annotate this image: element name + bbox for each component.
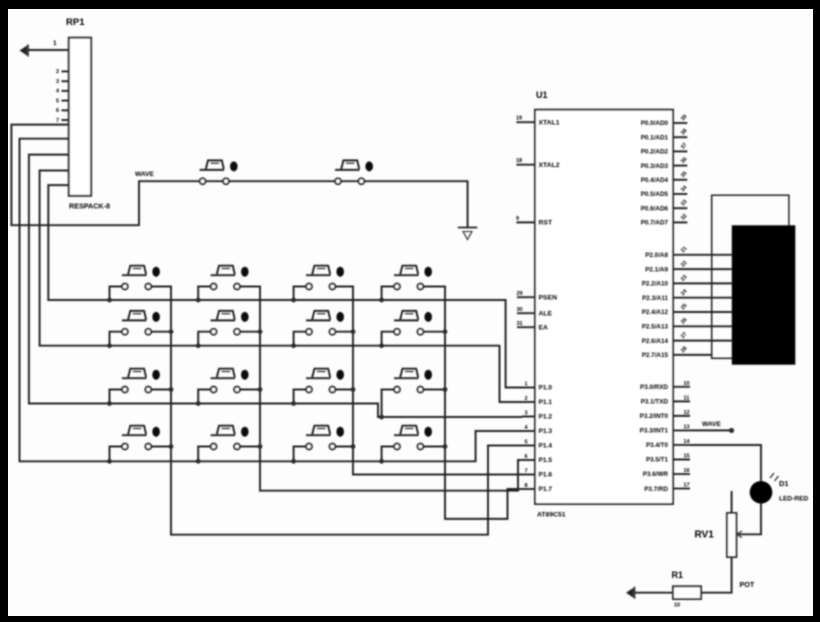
svg-text:33: 33 [680, 199, 689, 208]
pin P0.4 stub [673, 179, 687, 181]
pin XTAL1 stub [516, 121, 535, 123]
wire keypad r3c2 left leg [198, 390, 213, 404]
push button WAVE-2 [335, 160, 373, 184]
junction r3c1 on column [169, 387, 174, 392]
push button keypad r4c3 [306, 426, 344, 450]
svg-text:15: 15 [684, 454, 690, 460]
svg-text:AT89C51: AT89C51 [537, 512, 566, 519]
wire keypad r1c3 right leg [332, 286, 353, 288]
svg-text:5: 5 [525, 440, 528, 446]
wire keypad r4c4 left leg [382, 447, 397, 462]
svg-text:P1.4: P1.4 [539, 443, 553, 450]
svg-text:P3.1/TXD: P3.1/TXD [641, 399, 669, 406]
svg-text:P2.6/A14: P2.6/A14 [642, 338, 669, 345]
wire keypad r1c4 right leg [420, 286, 445, 288]
svg-text:10: 10 [674, 603, 680, 609]
wire keypad r1c1 right leg [148, 286, 171, 288]
push button keypad r2c4 [394, 311, 432, 335]
junction r1c2 on row bus [196, 298, 201, 303]
wire keypad r2c4 left leg [382, 332, 397, 346]
push button keypad r4c2 [211, 426, 249, 450]
wire keypad r3c4 right leg [420, 389, 445, 391]
push button keypad r1c3 [306, 266, 344, 290]
pin P3.1/TXD stub [673, 400, 690, 402]
svg-text:29: 29 [517, 291, 523, 297]
svg-text:P3.3/INT1: P3.3/INT1 [640, 428, 669, 435]
pin XTAL2 stub [516, 164, 535, 166]
wire RP1 pin 1 [28, 49, 69, 51]
wire keypad r2c1 right leg [148, 331, 171, 333]
junction r2c3 on row bus [291, 343, 296, 348]
pin P1.3 stub [522, 430, 535, 432]
junction r3c4 on row bus [379, 415, 384, 420]
wire D1 cathode to RV1 wiper [739, 503, 762, 534]
junction r1c1 on row bus [107, 298, 112, 303]
wire keypad r3c1 left leg [110, 390, 125, 404]
svg-text:P2.2/A10: P2.2/A10 [642, 281, 669, 288]
svg-text:13: 13 [684, 424, 690, 430]
svg-text:LED-RED: LED-RED [779, 496, 809, 503]
pin RST stub [516, 221, 535, 223]
junction r4c1 on column [169, 444, 174, 449]
push button keypad r1c1 [122, 266, 160, 290]
wire keypad r2c2 right leg [237, 331, 260, 333]
junction r3c3 on row bus [291, 401, 296, 406]
svg-text:3: 3 [525, 411, 528, 417]
svg-text:U1: U1 [536, 90, 548, 100]
wire RV1 bottom to R1 [701, 557, 732, 593]
push button keypad r3c3 [306, 369, 344, 393]
svg-text:2: 2 [525, 396, 528, 402]
wire pin P2.5 to display [673, 325, 732, 327]
svg-text:6: 6 [56, 108, 59, 114]
svg-text:P0.2/AD2: P0.2/AD2 [641, 149, 669, 156]
svg-text:5: 5 [56, 98, 59, 104]
push button keypad r2c1 [122, 311, 160, 335]
pin P3.7/RD stub [673, 488, 690, 490]
junction r2c1 on row bus [107, 343, 112, 348]
pin P1.1 stub [522, 401, 535, 403]
wire keypad r4c4 right leg [420, 446, 445, 448]
RP1 stub pin 6 [62, 109, 69, 111]
svg-text:P2.1/A9: P2.1/A9 [645, 266, 668, 273]
svg-text:26: 26 [680, 317, 689, 326]
wire R1 to terminal [635, 592, 674, 594]
svg-text:P1.0: P1.0 [539, 385, 553, 392]
svg-text:P2.3/A11: P2.3/A11 [642, 295, 668, 302]
resistor R1 body [673, 586, 701, 599]
RP1 stub pin 4 [62, 90, 69, 92]
pin P0.7 stub [673, 221, 687, 223]
svg-text:P0.4/AD4: P0.4/AD4 [641, 177, 669, 184]
svg-text:XTAL1: XTAL1 [539, 119, 560, 126]
svg-text:18: 18 [516, 158, 522, 164]
wire row 3 bus (RP1 to P1.2) [29, 155, 522, 417]
svg-text:36: 36 [680, 156, 689, 165]
svg-text:WAVE: WAVE [702, 421, 722, 428]
svg-text:23: 23 [680, 274, 689, 283]
junction r2c2 on row bus [196, 343, 201, 348]
input terminal (pin 1) [20, 45, 29, 57]
wire pin P2.2 to display [673, 282, 732, 284]
svg-text:P2.0/A8: P2.0/A8 [645, 252, 668, 259]
wire keypad r2c4 right leg [420, 331, 445, 333]
junction r2c1 on column [169, 329, 174, 334]
svg-text:22: 22 [680, 260, 689, 269]
wire RV1 top terminal [731, 491, 733, 513]
svg-text:12: 12 [684, 410, 690, 416]
wire WAVE from P3.3 [690, 429, 732, 431]
svg-text:8: 8 [525, 483, 528, 489]
push button keypad r2c2 [211, 311, 249, 335]
RP1 stub pin 2 [62, 70, 69, 72]
display dark screen [732, 225, 796, 364]
svg-text:14: 14 [684, 439, 691, 445]
wire keypad column 2 (to P1.5) [237, 287, 522, 491]
wire WAVE net (RP1 pull-up to button row and ground) [11, 125, 467, 228]
wire keypad r3c3 right leg [332, 389, 353, 391]
RV1 wiper arrow [737, 531, 742, 538]
svg-text:30: 30 [517, 307, 523, 313]
ground [458, 228, 478, 240]
junction r2c4 on row bus [379, 343, 384, 348]
pin P0.5 stub [673, 193, 687, 195]
svg-text:P1.2: P1.2 [539, 414, 553, 421]
wire keypad r4c1 left leg [110, 447, 125, 462]
wire keypad r4c3 right leg [332, 446, 353, 448]
svg-text:POT: POT [740, 580, 755, 589]
RP1 stub pin 3 [62, 80, 69, 82]
svg-text:RST: RST [539, 220, 553, 227]
junction r3c3 on column [351, 387, 356, 392]
push button keypad r3c1 [122, 369, 160, 393]
wire keypad r3c3 left leg [294, 390, 309, 404]
pin P3.4/T0 stub [673, 444, 690, 446]
svg-text:24: 24 [680, 288, 689, 297]
push button WAVE-1 [200, 160, 238, 184]
push button keypad r2c3 [306, 311, 344, 335]
pin PSEN stub [517, 296, 535, 298]
pin P1.6 stub [522, 474, 535, 476]
svg-text:P3.0/RXD: P3.0/RXD [640, 384, 668, 391]
svg-text:P1.6: P1.6 [539, 472, 553, 479]
pin P1.7 stub [522, 488, 535, 490]
svg-text:7: 7 [525, 469, 528, 475]
svg-text:19: 19 [516, 116, 522, 122]
svg-text:P1.5: P1.5 [539, 457, 553, 464]
pin P0.1 stub [673, 136, 687, 138]
push button keypad r4c1 [122, 426, 160, 450]
svg-text:25: 25 [680, 303, 689, 312]
junction r4c3 on column [351, 444, 356, 449]
svg-text:P2.7/A15: P2.7/A15 [642, 352, 669, 359]
svg-text:P3.4/T0: P3.4/T0 [646, 442, 669, 449]
svg-text:R1: R1 [672, 570, 684, 580]
svg-text:P0.3/AD3: P0.3/AD3 [641, 163, 669, 170]
svg-text:34: 34 [680, 184, 689, 193]
svg-text:EA: EA [539, 324, 549, 331]
wire pin P2.6 to display [673, 340, 732, 342]
pin P1.5 stub [522, 459, 535, 461]
pin P3.5/T1 stub [673, 459, 690, 461]
pin P0.6 stub [673, 207, 687, 209]
wire keypad r4c1 right leg [148, 446, 171, 448]
svg-text:32: 32 [680, 213, 689, 222]
svg-text:38: 38 [680, 128, 689, 137]
pin P1.4 stub [522, 445, 535, 447]
svg-text:P0.5/AD5: P0.5/AD5 [641, 191, 669, 198]
junction r2c3 on column [351, 329, 356, 334]
RP1 stub pin 7 [62, 119, 69, 121]
wire keypad r1c2 right leg [237, 286, 260, 288]
svg-text:9: 9 [516, 216, 519, 222]
wire keypad r1c1 left leg [110, 287, 125, 301]
junction r4c2 on column [258, 444, 263, 449]
svg-text:P0.0/AD0: P0.0/AD0 [641, 120, 669, 127]
junction r4c2 on row bus [196, 459, 201, 464]
pin ALE stub [517, 312, 535, 314]
svg-text:1: 1 [53, 40, 57, 47]
svg-text:P2.4/A12: P2.4/A12 [642, 309, 669, 316]
junction r3c1 on row bus [107, 401, 112, 406]
junction r3c2 on row bus [196, 401, 201, 406]
wire keypad r3c1 right leg [148, 389, 171, 391]
svg-text:27: 27 [680, 331, 689, 340]
pin EA stub [517, 326, 535, 328]
junction r3c2 on column [258, 387, 263, 392]
microcontroller U1 body [535, 110, 673, 504]
push button keypad r4c4 [394, 426, 432, 450]
svg-text:P3.7/RD: P3.7/RD [644, 486, 668, 493]
wire keypad r3c4 left leg [382, 390, 397, 418]
svg-text:P3.6/WR: P3.6/WR [643, 471, 669, 478]
potentiometer RV1 body [727, 513, 736, 557]
svg-text:P0.7/AD7: P0.7/AD7 [641, 220, 669, 227]
svg-text:39: 39 [680, 114, 689, 123]
LED D1 [750, 473, 779, 504]
svg-text:P0.1/AD1: P0.1/AD1 [641, 134, 669, 141]
svg-text:RP1: RP1 [66, 17, 85, 28]
pin P3.3/INT1 stub [673, 429, 690, 431]
wire keypad r2c3 left leg [294, 332, 309, 346]
svg-text:P1.7: P1.7 [539, 486, 553, 493]
svg-text:P1.3: P1.3 [539, 428, 553, 435]
pin P0.2 stub [673, 150, 687, 152]
svg-text:2: 2 [56, 69, 59, 75]
svg-text:35: 35 [680, 171, 689, 180]
svg-text:D1: D1 [779, 479, 789, 488]
junction r4c3 on row bus [291, 459, 296, 464]
pin P3.0/RXD stub [673, 386, 690, 388]
RP1 stub pin 5 [62, 100, 69, 102]
wire pin P2.1 to display [673, 268, 732, 270]
svg-text:ALE: ALE [539, 310, 553, 317]
wire keypad r2c1 left leg [110, 332, 125, 346]
svg-text:PSEN: PSEN [539, 294, 558, 301]
pin P0.0 stub [673, 122, 687, 124]
svg-text:3: 3 [56, 79, 59, 85]
svg-text:RV1: RV1 [695, 530, 715, 541]
wire keypad r4c3 left leg [294, 447, 309, 462]
svg-text:10: 10 [684, 381, 690, 387]
junction r4c4 on row bus [379, 459, 384, 464]
wire row 4 bus (RP1 to P1.3) [20, 139, 523, 462]
wire pin P2.7 to display [673, 354, 711, 356]
svg-text:11: 11 [684, 395, 690, 401]
wire keypad r1c3 left leg [294, 287, 309, 301]
push button keypad r3c2 [211, 369, 249, 393]
svg-text:P1.1: P1.1 [539, 399, 553, 406]
wire keypad r2c2 left leg [198, 332, 213, 346]
wire keypad column 1 (to P1.4) [148, 287, 522, 535]
push button keypad r3c4 [394, 369, 432, 393]
svg-text:6: 6 [525, 454, 528, 460]
wire keypad r3c2 right leg [237, 389, 260, 391]
node WAVE end [729, 428, 734, 433]
svg-text:7: 7 [56, 118, 59, 124]
pin P1.0 stub [522, 387, 535, 389]
wire keypad column 3 (to P1.6) [332, 287, 522, 475]
wire row 2 bus (RP1 to P1.1) [40, 171, 522, 403]
svg-text:17: 17 [684, 483, 690, 489]
svg-text:WAVE: WAVE [135, 171, 155, 178]
wire keypad r4c2 left leg [198, 447, 213, 462]
svg-text:P3.2/INT0: P3.2/INT0 [640, 413, 669, 420]
junction r1c4 on row bus [379, 298, 384, 303]
svg-text:P0.6/AD6: P0.6/AD6 [641, 205, 669, 212]
svg-text:P2.5/A13: P2.5/A13 [642, 324, 669, 331]
svg-text:XTAL2: XTAL2 [539, 162, 560, 169]
input terminal (R1 left) [626, 587, 635, 599]
svg-text:1: 1 [525, 382, 528, 388]
svg-text:4: 4 [56, 89, 60, 95]
push button keypad r1c2 [211, 266, 249, 290]
pin P1.2 stub [522, 416, 535, 418]
push button keypad r1c4 [394, 266, 432, 290]
pin P3.2/INT0 stub [673, 415, 690, 417]
svg-text:P3.5/T1: P3.5/T1 [646, 457, 669, 464]
junction r2c2 on column [258, 329, 263, 334]
wire keypad r1c2 left leg [198, 287, 213, 301]
wire P3.4 to D1 anode [690, 445, 761, 481]
wire keypad r1c4 left leg [382, 287, 397, 301]
junction r4c4 on column [443, 444, 448, 449]
junction r1c3 on row bus [291, 298, 296, 303]
wire keypad r2c3 right leg [332, 331, 353, 333]
pin P3.6/WR stub [673, 473, 690, 475]
wire pin P2.4 to display [673, 311, 732, 313]
wire pin P2.0 to display [673, 254, 732, 256]
display module outline [712, 195, 789, 358]
pin P0.3 stub [673, 165, 687, 167]
svg-text:21: 21 [680, 246, 689, 255]
svg-text:31: 31 [517, 321, 523, 327]
junction r2c4 on column [443, 329, 448, 334]
svg-text:RESPACK-8: RESPACK-8 [69, 202, 110, 211]
wire keypad r4c2 right leg [237, 446, 260, 448]
junction r4c1 on row bus [107, 459, 112, 464]
svg-text:37: 37 [680, 142, 689, 151]
resistor pack RP1 body [69, 38, 91, 196]
svg-text:16: 16 [684, 468, 690, 474]
wire row 1 bus (RP1 to P1.0) [48, 185, 522, 387]
wire keypad column 4 (to P1.7) [420, 287, 522, 519]
junction r3c4 on column [443, 387, 448, 392]
wire pin P2.3 to display [673, 297, 732, 299]
svg-text:28: 28 [680, 346, 689, 355]
